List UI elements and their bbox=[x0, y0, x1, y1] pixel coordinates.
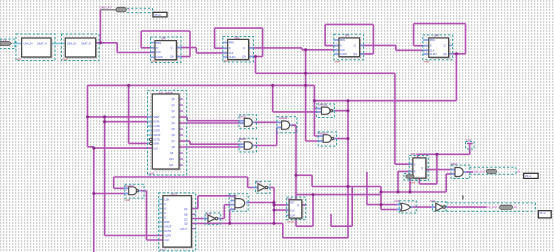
svg-text:CLR: CLR bbox=[290, 214, 295, 217]
svg-text:CLK: CLK bbox=[153, 148, 158, 151]
svg-text:XOR: XOR bbox=[394, 199, 400, 203]
svg-text:CLK: CLK bbox=[2, 38, 7, 42]
svg-text:D: D bbox=[164, 217, 166, 220]
svg-text:inst: inst bbox=[17, 58, 21, 61]
svg-text:QD: QD bbox=[184, 223, 188, 226]
svg-text:ClkAT_N: ClkAT_N bbox=[81, 43, 91, 46]
svg-text:SRFF: SRFF bbox=[411, 152, 418, 156]
svg-text:NAND2: NAND2 bbox=[319, 102, 328, 106]
svg-text:Q: Q bbox=[354, 45, 356, 48]
svg-text:GRUP: GRUP bbox=[164, 226, 171, 229]
svg-text:CLRN: CLRN bbox=[340, 53, 347, 56]
svg-text:CLK: CLK bbox=[156, 51, 161, 54]
svg-text:CLK: CLK bbox=[430, 49, 435, 52]
svg-text:DATA: DATA bbox=[153, 121, 160, 124]
svg-text:NOT: NOT bbox=[430, 199, 436, 203]
svg-text:NAND2: NAND2 bbox=[125, 184, 134, 188]
svg-text:TFF: TFF bbox=[287, 197, 292, 201]
svg-text:QB: QB bbox=[184, 214, 188, 217]
svg-text:inst8: inst8 bbox=[125, 199, 131, 202]
svg-text:SET: SET bbox=[290, 201, 295, 204]
svg-text:NOT: NOT bbox=[256, 180, 262, 184]
svg-text:inst7: inst7 bbox=[160, 249, 166, 252]
svg-text:COUT: COUT bbox=[180, 228, 187, 231]
svg-text:QA: QA bbox=[184, 208, 188, 211]
svg-text:QN: QN bbox=[242, 56, 246, 59]
svg-text:CLRN: CLRN bbox=[430, 53, 437, 56]
svg-text:NAND2: NAND2 bbox=[319, 132, 328, 136]
svg-text:PRN: PRN bbox=[156, 42, 161, 45]
svg-text:PRN: PRN bbox=[229, 42, 234, 45]
svg-text:Q: Q bbox=[421, 167, 423, 170]
svg-text:inst5: inst5 bbox=[424, 60, 430, 63]
svg-text:QN: QN bbox=[170, 56, 174, 59]
svg-text:inst3: inst3 bbox=[224, 60, 230, 63]
svg-text:PRN: PRN bbox=[430, 39, 435, 42]
svg-text:Q11: Q11 bbox=[169, 164, 174, 167]
svg-text:inst6: inst6 bbox=[149, 172, 155, 175]
svg-text:PRN: PRN bbox=[340, 39, 345, 42]
svg-text:AND3: AND3 bbox=[230, 194, 237, 198]
svg-text:ClkA_IN: ClkA_IN bbox=[67, 43, 76, 46]
svg-text:inst9: inst9 bbox=[410, 182, 416, 185]
svg-text:DWN: DWN bbox=[153, 143, 159, 146]
svg-text:D: D bbox=[156, 47, 158, 50]
svg-text:CLK: CLK bbox=[290, 209, 295, 212]
svg-text:QN: QN bbox=[443, 53, 447, 56]
svg-text:inst1: inst1 bbox=[63, 58, 69, 61]
svg-text:CLK: CLK bbox=[164, 239, 169, 242]
svg-text:NOT: NOT bbox=[206, 212, 212, 216]
svg-text:DFF: DFF bbox=[434, 34, 439, 38]
svg-text:QC: QC bbox=[184, 218, 188, 221]
svg-text:lpm_counter: lpm_counter bbox=[159, 91, 173, 95]
svg-text:Q: Q bbox=[444, 44, 446, 47]
svg-text:Q10: Q10 bbox=[169, 158, 174, 161]
svg-text:AND2: AND2 bbox=[239, 115, 246, 119]
svg-text:DFF: DFF bbox=[235, 36, 240, 40]
svg-text:DFF: DFF bbox=[161, 37, 166, 41]
svg-text:Q: Q bbox=[171, 47, 173, 50]
svg-text:ClkAT_N: ClkAT_N bbox=[37, 43, 47, 46]
svg-text:ClkC_OUT: ClkC_OUT bbox=[474, 170, 487, 173]
svg-text:RCTN: RCTN bbox=[164, 230, 171, 233]
svg-text:VCC: VCC bbox=[466, 138, 472, 142]
svg-text:GRUP: GRUP bbox=[153, 134, 160, 137]
svg-text:DFF: DFF bbox=[345, 34, 350, 38]
svg-text:SSET: SSET bbox=[153, 116, 160, 119]
svg-text:CLRN: CLRN bbox=[164, 235, 171, 238]
svg-text:R: R bbox=[414, 171, 416, 174]
svg-text:inst4: inst4 bbox=[335, 60, 341, 63]
svg-text:CLRN: CLRN bbox=[156, 56, 163, 59]
svg-text:LOAD: LOAD bbox=[153, 125, 160, 128]
svg-text:ClkA_IN: ClkA_IN bbox=[24, 43, 33, 46]
svg-text:LDN: LDN bbox=[164, 199, 169, 202]
svg-text:AND2: AND2 bbox=[451, 162, 458, 166]
svg-text:AND2: AND2 bbox=[239, 137, 246, 141]
svg-text:CLRN: CLRN bbox=[229, 56, 236, 59]
svg-text:D: D bbox=[340, 45, 342, 48]
svg-text:NAND2: NAND2 bbox=[279, 116, 288, 120]
svg-text:SCTN: SCTN bbox=[153, 139, 160, 142]
svg-text:CNTE: CNTE bbox=[153, 130, 160, 133]
svg-text:25 ns: 25 ns bbox=[525, 174, 532, 178]
svg-text:25 ns: 25 ns bbox=[155, 13, 162, 17]
svg-text:25 ns: 25 ns bbox=[540, 212, 547, 215]
svg-text:74161: 74161 bbox=[170, 193, 178, 197]
svg-text:D: D bbox=[430, 45, 432, 48]
svg-text:ENP: ENP bbox=[164, 221, 169, 224]
svg-text:CLK: CLK bbox=[229, 52, 234, 55]
svg-text:CLK: CLK bbox=[340, 49, 345, 52]
svg-text:ClkB_OUT: ClkB_OUT bbox=[100, 6, 113, 10]
svg-text:inst10: inst10 bbox=[288, 221, 295, 224]
svg-text:Q: Q bbox=[243, 47, 245, 50]
svg-text:D: D bbox=[229, 47, 231, 50]
svg-text:C: C bbox=[164, 212, 166, 215]
svg-text:inst2: inst2 bbox=[152, 60, 158, 63]
svg-text:QN: QN bbox=[353, 53, 357, 56]
svg-text:Clk_OUT: Clk_OUT bbox=[487, 206, 498, 209]
svg-text:Q: Q bbox=[297, 204, 299, 207]
